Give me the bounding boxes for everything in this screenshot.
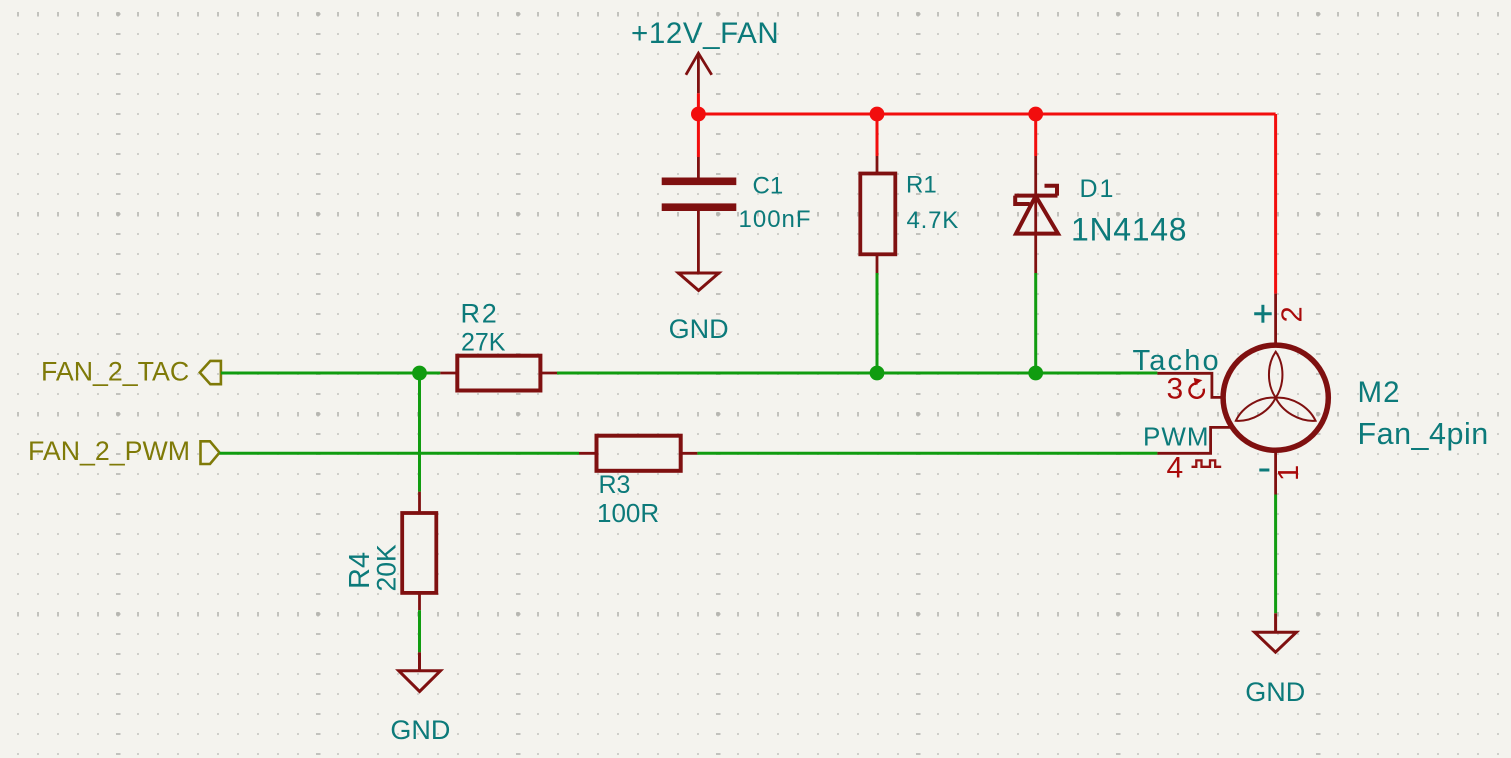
wire fan +12V drop [1274,114,1277,294]
resistor R3 [579,436,697,471]
svg-text:3: 3 [1167,373,1184,406]
resistor R1 [860,156,895,273]
svg-text:27K: 27K [461,329,506,357]
svg-text:R3: R3 [599,471,631,499]
svg-text:4.7K: 4.7K [907,207,960,234]
svg-text:GND: GND [669,314,729,344]
wire +12V rail horizontal [698,113,1275,116]
wire R1 top stub [876,114,879,156]
fan M2 [1157,294,1328,495]
wire fan bottom to ground [1274,495,1277,614]
resistor R4 [402,492,436,611]
svg-text:100R: 100R [597,498,659,528]
ground under fan [1255,613,1297,652]
wire D1 top stub [1034,114,1037,156]
svg-text:100nF: 100nF [739,206,812,233]
svg-text:20K: 20K [372,544,402,591]
resistor R2 [440,356,557,391]
junction at C1/+12V [691,107,706,122]
ground under R4 [399,652,441,691]
wire FAN_2_PWM to R3 [220,452,580,455]
svg-text:R2: R2 [461,299,499,329]
svg-text:C1: C1 [753,173,784,200]
junction tacho node [412,366,427,381]
svg-text:+12V_FAN: +12V_FAN [631,17,779,50]
wire R1 bottom to tacho net [876,273,879,373]
junction D1 bottom [1028,366,1043,381]
wire R3 to fan PWM pin [697,452,1157,455]
diode D1 zener 1N4148 [1015,156,1059,273]
svg-text:4: 4 [1167,452,1184,485]
hierarchical label FAN_2_PWM [28,436,220,466]
power symbol +12V_FAN [686,53,712,93]
wire R2 to fan tacho pin [557,372,1157,375]
wire D1 bottom to tacho net [1034,273,1037,373]
capacitor C1 [662,157,737,273]
square wave symbol on pin 4 [1192,460,1222,466]
svg-text:D1: D1 [1080,175,1116,203]
svg-text:R1: R1 [906,172,937,199]
svg-text:1N4148: 1N4148 [1071,212,1187,248]
wire +12V power stem [697,93,700,157]
wire FAN_2_TAC to R2 [221,372,440,375]
fan pin name + [1254,305,1272,323]
junction at D1/+12V [1028,107,1043,122]
wire R4 to ground [418,610,421,652]
svg-text:Fan_4pin: Fan_4pin [1358,417,1489,451]
svg-text:1: 1 [1273,465,1305,481]
svg-text:GND: GND [390,715,450,745]
junction R1 bottom [870,366,885,381]
open collector symbol on pin 3 [1189,378,1203,398]
hierarchical label FAN_2_TAC [41,357,221,387]
ground under C1 [678,273,718,291]
svg-text:2: 2 [1276,306,1308,322]
junction at R1/+12V [870,107,885,122]
wire tacho node down to R4 [418,373,421,492]
fan pin name minus [1259,469,1269,472]
svg-text:FAN_2_TAC: FAN_2_TAC [41,357,189,387]
svg-text:M2: M2 [1358,376,1401,409]
svg-text:FAN_2_PWM: FAN_2_PWM [28,436,190,466]
svg-text:PWM: PWM [1143,422,1210,452]
svg-text:GND: GND [1245,677,1305,707]
